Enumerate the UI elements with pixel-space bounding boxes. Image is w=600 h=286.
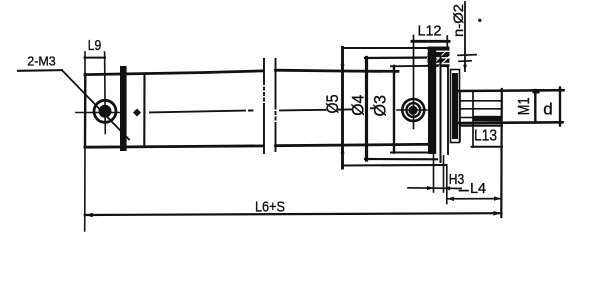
port P1 inner filled circle xyxy=(99,105,112,118)
svg-text:Ø4: Ø4 xyxy=(349,95,367,116)
flange extension down (H3 left ext) xyxy=(433,154,435,192)
centerline diamond xyxy=(133,109,141,117)
rod thread line 1 xyxy=(460,100,502,102)
H3 dimension line xyxy=(408,187,461,190)
retaining plate left line xyxy=(440,56,442,162)
H3 arrows xyxy=(427,186,450,190)
Ø5 dimension arrows xyxy=(341,65,345,154)
M1 junction blob xyxy=(533,89,540,94)
L9 right extension line (continues through port center) xyxy=(104,52,107,134)
piston rod top edge xyxy=(459,89,564,92)
svg-text:d: d xyxy=(543,99,552,118)
svg-text:Ø3: Ø3 xyxy=(372,95,390,117)
svg-text:H3: H3 xyxy=(449,171,465,188)
L12 dimension line xyxy=(412,40,449,43)
cylinder tube body bottom edge xyxy=(85,144,430,147)
rod thread root line xyxy=(460,117,474,119)
L6+S arrows xyxy=(85,211,502,217)
break line left xyxy=(263,59,265,153)
2-M3 leader line xyxy=(62,70,129,139)
n-Ø2 tick xyxy=(458,55,476,62)
d dimension line xyxy=(559,88,561,126)
counterbore bottom line xyxy=(391,152,429,154)
cushion gland line xyxy=(143,74,145,147)
L12 right extension line xyxy=(446,36,448,67)
svg-text:L9: L9 xyxy=(88,38,102,54)
counterbore top line xyxy=(391,65,429,68)
centerline dashes xyxy=(150,108,375,112)
L13 box bottom line xyxy=(472,146,503,148)
cylinder tube body top edge xyxy=(85,70,398,74)
L9 dimension line xyxy=(85,57,106,59)
L4 left extension xyxy=(446,165,448,204)
svg-text:2-M3: 2-M3 xyxy=(27,53,56,68)
L13 left extension xyxy=(472,92,474,147)
port P2 inner filled circle xyxy=(408,106,417,115)
svg-text:L13: L13 xyxy=(474,127,497,144)
port P2 outer circle xyxy=(402,99,424,121)
port P2 horizontal centerline xyxy=(397,109,427,111)
head block left edge / Ø4 dimension line xyxy=(365,58,368,161)
L13 box top line xyxy=(460,124,502,126)
rod thread dark band xyxy=(474,116,503,122)
svg-text:L6+S: L6+S xyxy=(255,198,285,215)
cylinder tube left end edge xyxy=(84,75,87,148)
rod thread line 2 xyxy=(460,108,502,110)
hatched mounting hole section xyxy=(428,47,450,68)
rod seal disc dark fill xyxy=(452,73,458,139)
stray dot xyxy=(478,19,481,22)
piston rod bottom edge xyxy=(458,121,563,124)
end flange thick bar xyxy=(428,49,436,154)
rod start face xyxy=(459,91,461,141)
Ø5 dimension line vertical xyxy=(341,48,344,169)
head outer flange outline right xyxy=(447,56,449,154)
n-Ø2 extension line xyxy=(464,2,466,71)
L9 left extension line xyxy=(84,52,86,75)
svg-text:L4: L4 xyxy=(470,181,486,197)
port P2 middle circle xyxy=(406,103,420,117)
svg-text:n-Ø2: n-Ø2 xyxy=(451,4,466,37)
L4 label leader dash xyxy=(460,190,469,192)
head block top edge xyxy=(365,56,437,59)
thread end line / L4 right extension xyxy=(500,89,503,217)
port P1 outer circle xyxy=(94,100,116,122)
retaining plate right line / H3 right ext xyxy=(443,156,445,192)
counterbore step / Ø3 dimension line xyxy=(393,66,395,153)
rod seal disc outline xyxy=(451,70,460,143)
L6+S left extension xyxy=(84,147,86,231)
break line right xyxy=(275,59,277,151)
head block bottom edge xyxy=(365,158,437,161)
L6+S dimension line xyxy=(85,213,502,215)
svg-text:M1: M1 xyxy=(516,97,533,115)
svg-text:Ø5: Ø5 xyxy=(324,95,342,114)
n-Ø2 arrow xyxy=(463,65,467,71)
L4 arrows xyxy=(447,196,502,201)
M1 dimension line xyxy=(534,90,536,123)
2-M3 label underline xyxy=(18,69,62,72)
head outer flange outline bottom xyxy=(342,164,446,167)
port P1 horizontal centerline xyxy=(76,112,120,114)
L12 left extension / port P2 vertical centerline xyxy=(413,36,415,129)
piston seal thick bar xyxy=(120,66,127,151)
head outer flange outline top xyxy=(343,47,449,49)
svg-text:L12: L12 xyxy=(418,23,442,40)
L4 dimension line xyxy=(447,198,502,200)
